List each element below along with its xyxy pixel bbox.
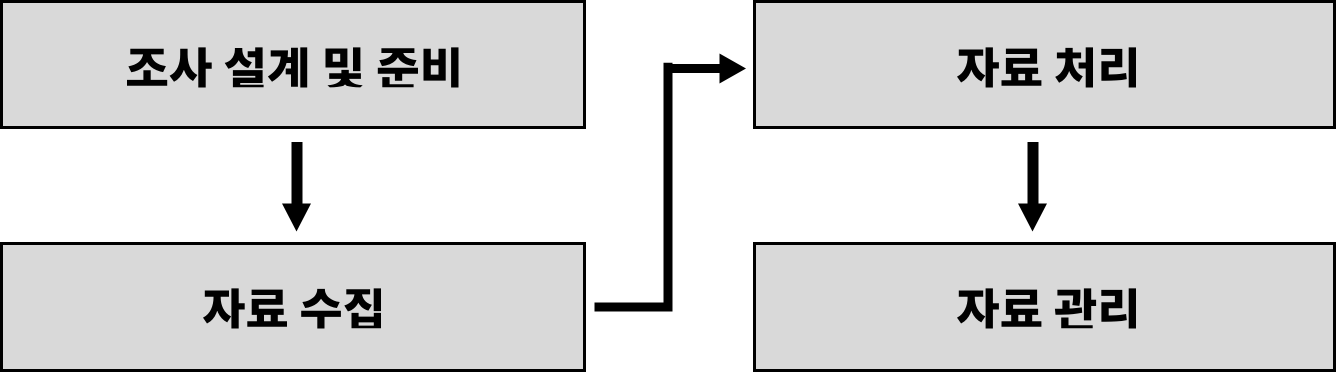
label: 자료 관리 — [957, 288, 1136, 328]
label: 조사 설계 및 준비 — [127, 47, 459, 87]
arrow A1: B1 down to B2 — [282, 142, 311, 232]
label: 자료 수집 — [203, 288, 381, 328]
box B3: data processing (top-right) — [755, 2, 1335, 128]
label: 자료 처리 — [957, 47, 1136, 87]
connector A3: elbow from B2 right side up to B3 left side — [595, 54, 747, 312]
arrow A2: B3 down to B4 — [1018, 142, 1047, 232]
box B2: data collection (bottom-left) — [2, 244, 585, 371]
box B1: survey design and preparation (top-left) — [2, 2, 585, 128]
box B4: data management (bottom-right) — [755, 244, 1335, 371]
